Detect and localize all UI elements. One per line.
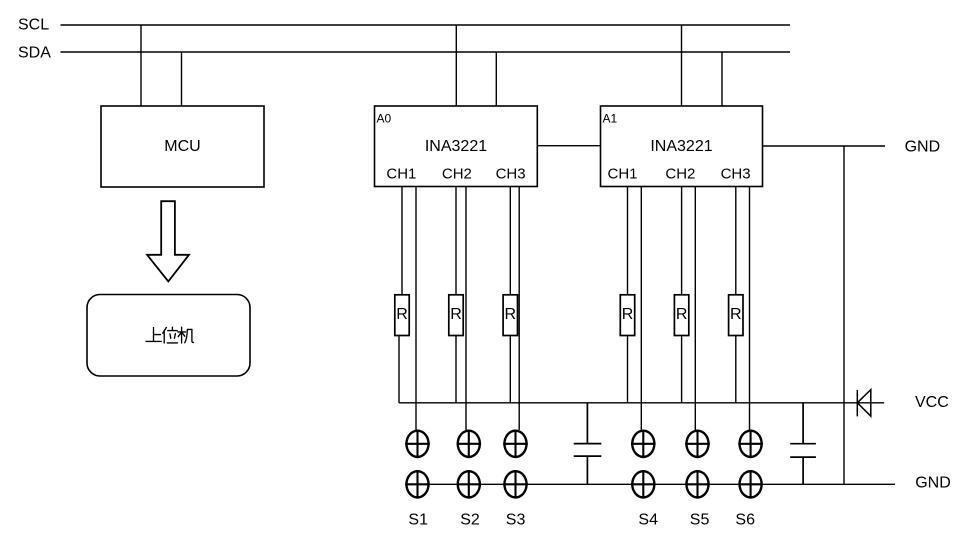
capacitor C1 <box>574 403 602 485</box>
svg-text:S4: S4 <box>638 511 658 528</box>
svg-text:S1: S1 <box>408 511 428 528</box>
wire SCL bus <box>61 24 791 26</box>
wire U2 CH1 right pin <box>640 187 642 431</box>
svg-text:R: R <box>396 306 408 323</box>
capacitor C2 <box>790 403 816 485</box>
wire R3 bottom <box>509 336 511 403</box>
wire U2 to GND rail <box>763 145 886 147</box>
svg-text:S2: S2 <box>460 511 480 528</box>
wire GND rail bottom <box>418 483 896 485</box>
svg-text:CH2: CH2 <box>665 165 695 182</box>
wire U2 CH2 left pin <box>681 187 683 295</box>
resistor R2 <box>449 295 463 336</box>
svg-text:MCU: MCU <box>164 138 200 155</box>
arrow MCU to host <box>147 201 189 281</box>
wire U2 CH1 left pin <box>627 187 629 295</box>
svg-text:CH1: CH1 <box>386 165 416 182</box>
svg-text:SDA: SDA <box>18 45 51 62</box>
wire U1 CH2 right pin <box>465 187 467 431</box>
resistor R1 <box>395 295 409 336</box>
svg-text:CH2: CH2 <box>442 165 472 182</box>
MCU block <box>101 106 264 187</box>
connector S4 bottom <box>631 470 656 499</box>
wire SDA bus <box>61 51 791 53</box>
svg-text:S6: S6 <box>735 511 755 528</box>
connector S5 top <box>685 430 710 459</box>
wire U1 to U2 <box>537 145 600 147</box>
connector S6 bottom <box>738 470 763 499</box>
svg-text:CH3: CH3 <box>721 165 751 182</box>
wire R1 bottom <box>398 336 400 403</box>
svg-text:S3: S3 <box>506 511 526 528</box>
wire U2 SCL drop <box>681 25 683 106</box>
wire VCC rail <box>399 402 884 404</box>
host block 上位机 <box>87 295 250 377</box>
wire R2 bottom <box>455 336 457 403</box>
resistor R6 <box>729 295 743 336</box>
connector S5 bottom <box>685 470 710 499</box>
wire R4 bottom <box>627 336 629 403</box>
wire U1 CH1 left pin <box>401 187 403 295</box>
wire U2 CH2 right pin <box>694 187 696 431</box>
svg-text:CH3: CH3 <box>496 165 526 182</box>
svg-text:SCL: SCL <box>18 17 49 34</box>
connector S2 bottom <box>457 470 482 499</box>
svg-text:R: R <box>505 306 517 323</box>
wire MCU SDA drop <box>181 52 183 106</box>
wire U1 CH1 right pin <box>415 187 417 431</box>
svg-text:A1: A1 <box>603 111 618 125</box>
op-amp U1 INA3221 block <box>375 106 538 187</box>
svg-text:R: R <box>622 306 634 323</box>
resistor R3 <box>503 295 517 336</box>
connector S6 top <box>738 430 763 459</box>
svg-text:INA3221: INA3221 <box>650 138 712 155</box>
resistor R4 <box>620 295 634 336</box>
wire R5 bottom <box>681 336 683 403</box>
wire U1 SDA drop <box>495 52 497 106</box>
wire U1 CH3 right pin <box>518 187 520 431</box>
svg-text:INA3221: INA3221 <box>425 138 487 155</box>
wire U2 CH3 right pin <box>749 187 751 431</box>
connector S1 bottom <box>405 470 430 499</box>
connector S3 bottom <box>503 470 528 499</box>
svg-text:VCC: VCC <box>915 394 949 411</box>
svg-text:A0: A0 <box>377 111 392 125</box>
svg-text:R: R <box>730 306 742 323</box>
resistor R5 <box>674 295 688 336</box>
svg-text:R: R <box>450 306 462 323</box>
svg-text:R: R <box>676 306 688 323</box>
wire U1 CH2 left pin <box>455 187 457 295</box>
connector S1 top <box>405 430 430 459</box>
diode D1 <box>857 390 871 417</box>
connector S2 top <box>457 430 482 459</box>
svg-text:CH1: CH1 <box>607 165 637 182</box>
wire R6 bottom <box>735 336 737 403</box>
wire GND vertical right <box>843 146 845 484</box>
wire U1 CH3 left pin <box>509 187 511 295</box>
connector S4 top <box>631 430 656 459</box>
svg-text:GND: GND <box>905 139 941 156</box>
op-amp U2 INA3221 block <box>601 106 763 187</box>
svg-text:GND: GND <box>915 474 951 491</box>
wire U2 CH3 left pin <box>735 187 737 295</box>
connector S3 top <box>503 430 528 459</box>
svg-text:S5: S5 <box>690 511 710 528</box>
wire MCU SCL drop <box>140 25 142 106</box>
wire U2 SDA drop <box>721 52 723 106</box>
wire U1 SCL drop <box>455 25 457 106</box>
